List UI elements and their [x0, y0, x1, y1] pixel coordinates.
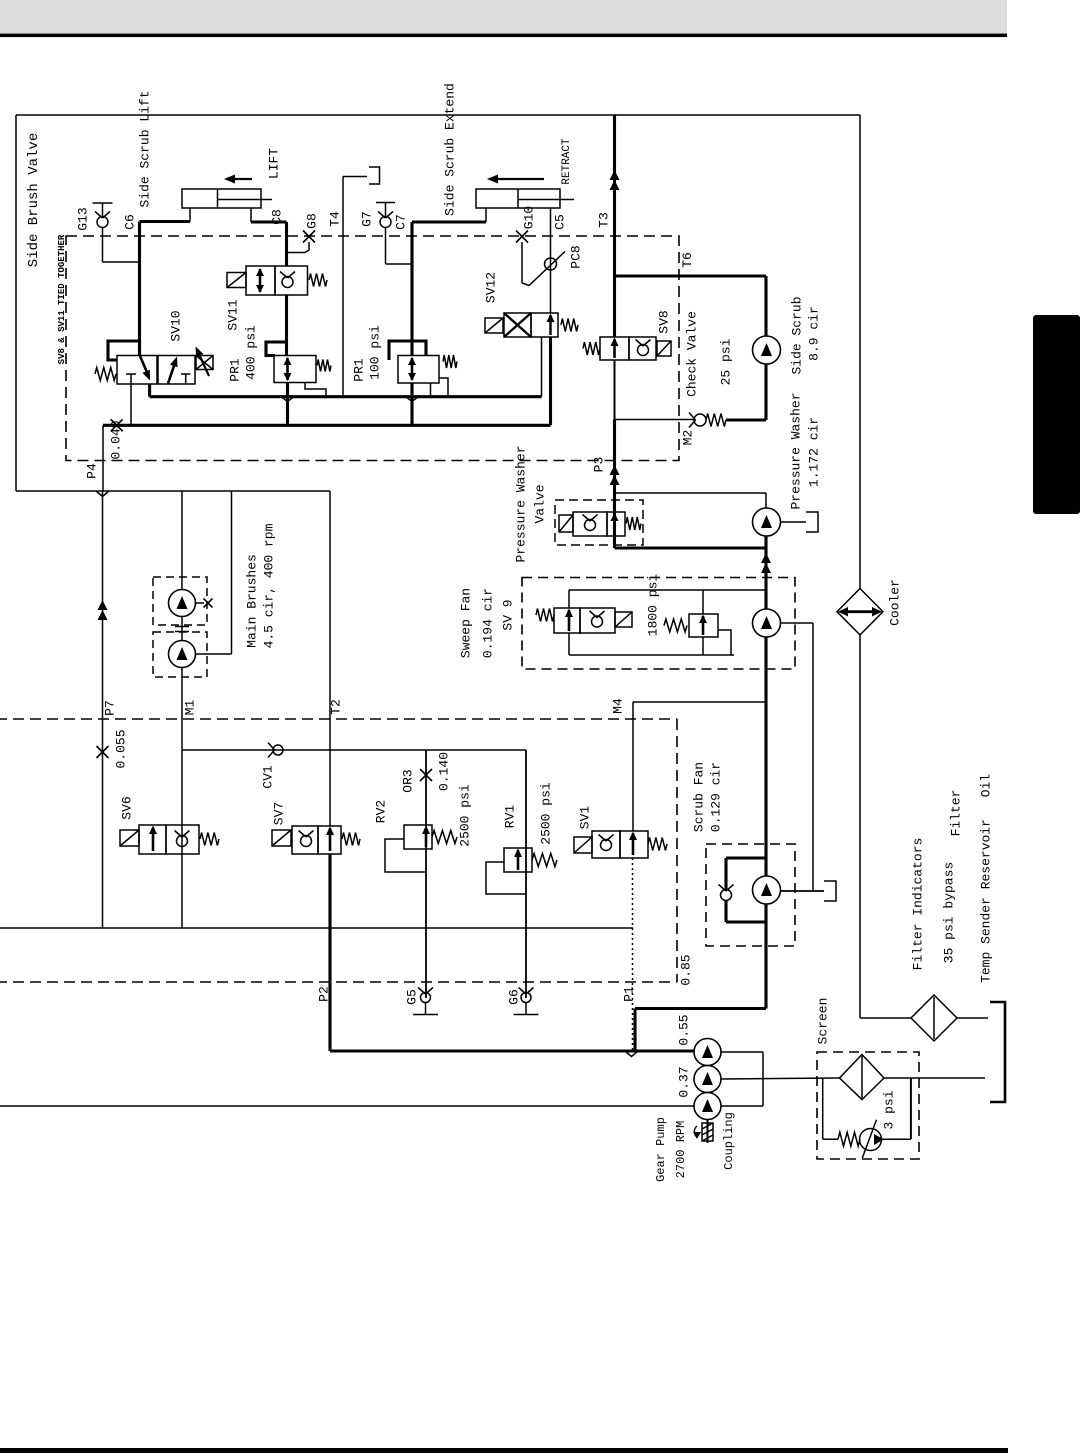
- valve SV10 flow arrow right: [168, 360, 176, 384]
- valve SV11 solenoid: [227, 273, 246, 288]
- motor coupling link: [181, 617, 183, 641]
- svg-text:G6: G6: [507, 989, 522, 1005]
- valve SV12 solenoid: [485, 318, 503, 333]
- relief valve 1800psi feed: [702, 590, 704, 614]
- svg-text:Check Valve: Check Valve: [685, 311, 700, 397]
- wire C7 link: [412, 220, 486, 223]
- arrow retract direction: [494, 178, 544, 180]
- check valve G7 plug bar: [376, 202, 395, 204]
- valve SV1 spring: [648, 838, 667, 851]
- cooler flow double arrow: [841, 610, 879, 613]
- svg-text:Oil: Oil: [979, 774, 994, 798]
- svg-text:T6: T6: [680, 252, 695, 268]
- check valve G13: [97, 217, 108, 228]
- valve SV6 solenoid: [120, 830, 139, 846]
- svg-text:M2: M2: [681, 430, 696, 446]
- wire G10 drop: [521, 242, 523, 283]
- wire M1 feed drop: [181, 491, 183, 590]
- valve SV10 blocked port T right: [181, 373, 191, 375]
- svg-text:0.37: 0.37: [677, 1066, 692, 1097]
- manifold dashed boundary right: [676, 719, 678, 982]
- wire SV12 outlet heavy drop: [549, 337, 552, 425]
- svg-text:T4: T4: [328, 211, 343, 227]
- svg-text:G5: G5: [405, 989, 420, 1005]
- wire heavy main vertical to SV9: [764, 536, 767, 609]
- wire G13 drop: [102, 228, 104, 263]
- valve PR1 400psi spring: [317, 360, 331, 372]
- svg-text:C6: C6: [123, 214, 138, 230]
- wire pump2 output line: [721, 1078, 840, 1079]
- svg-text:CV1: CV1: [261, 765, 276, 789]
- svg-text:SV1: SV1: [578, 806, 593, 830]
- wire SV9 frame left drop: [568, 590, 570, 608]
- svg-text:35 psi bypass: 35 psi bypass: [942, 862, 957, 963]
- pilot check valve PC8: [545, 258, 557, 270]
- wire sweep fan return drop: [812, 623, 814, 891]
- wire C7 heavy drop: [410, 222, 413, 356]
- svg-text:Side Scrub: Side Scrub: [790, 296, 805, 374]
- svg-text:P1: P1: [622, 986, 637, 1002]
- valve SV7 solenoid: [272, 830, 291, 846]
- wire scrub fan return heavy: [764, 904, 767, 1009]
- svg-text:SV 9: SV 9: [501, 599, 516, 630]
- wire scrub fan outlet: [781, 890, 825, 892]
- wire C8 drop to SV11: [285, 222, 288, 266]
- svg-text:G13: G13: [76, 207, 91, 230]
- page side tab: [1033, 315, 1080, 514]
- valve SV11 spring: [309, 274, 327, 287]
- svg-text:C8: C8: [270, 209, 285, 225]
- wire SV9 frame top: [569, 589, 765, 591]
- svg-text:0.129 cir: 0.129 cir: [709, 762, 724, 832]
- valve SV10 spring: [95, 368, 116, 381]
- wire M2 link heavy: [726, 418, 766, 421]
- manifold dashed boundary bottom: [0, 981, 677, 983]
- valve SV10 proportional arrow: [198, 352, 209, 376]
- svg-text:Sweep Fan: Sweep Fan: [459, 588, 474, 658]
- valve PR1 400psi inlet hook: [266, 342, 288, 356]
- wire T2 line upper: [329, 491, 331, 826]
- valve SV12 body box 2: [531, 313, 558, 337]
- wire cooler return line lower: [859, 635, 861, 1018]
- svg-text:Scrub Fan: Scrub Fan: [692, 762, 707, 832]
- wire scrub fan feed heavy: [764, 637, 767, 876]
- motor Scrub Fan: [753, 876, 781, 904]
- svg-text:Filter: Filter: [949, 790, 964, 837]
- motor Main Brush 1 dashed box: [153, 577, 207, 625]
- wire pressure washer motor to tank: [781, 521, 807, 523]
- wire PR1 400psi outlet: [286, 383, 289, 426]
- wire C6 heavy drop: [138, 222, 141, 356]
- wire G13 to C6: [103, 261, 140, 263]
- valve block Side Brush Valve dashed boundary: [66, 236, 679, 461]
- valve SV10 flow arrow left: [140, 356, 149, 377]
- valve SV8 body box 2 with check: [629, 337, 656, 360]
- valve SV12 spring: [561, 319, 578, 332]
- svg-text:Screen: Screen: [816, 998, 831, 1045]
- wire return to filter: [860, 1017, 911, 1019]
- svg-text:T3: T3: [597, 212, 612, 228]
- valve SV8 solenoid: [657, 341, 671, 356]
- valve SV10 blocked port T left: [126, 373, 136, 375]
- bypass check ball: [860, 1129, 882, 1151]
- wire extend cylinder left port: [485, 208, 487, 222]
- wire SV9 valve outlet: [568, 633, 570, 655]
- wire T6 top link heavy: [615, 274, 767, 277]
- wire tank header line: [0, 927, 633, 929]
- valve SV11 body box 1: [246, 266, 275, 295]
- wire cooler return line upper: [859, 115, 861, 589]
- valve PR1 400psi pilot drain: [305, 383, 326, 397]
- valve SV11 double arrow: [259, 269, 262, 292]
- svg-text:G7: G7: [360, 211, 375, 227]
- wire G7 to C7: [386, 263, 413, 265]
- relief valve 1800psi outlet: [702, 637, 704, 655]
- check valve G6: [521, 993, 531, 1003]
- valve SV9 solenoid: [615, 612, 632, 627]
- wire sweep fan motor outlet: [781, 622, 814, 624]
- wire SV10 outlet drop: [148, 384, 151, 397]
- svg-text:PR1: PR1: [352, 358, 367, 382]
- page header bar: [0, 0, 1007, 33]
- orifice OR3 0.140: [420, 769, 432, 781]
- wire G10 to PC8 pilot: [522, 252, 565, 286]
- svg-text:Main Brushes: Main Brushes: [245, 554, 260, 648]
- filter diamond 3psi: [840, 1055, 885, 1100]
- motor block Scrub Fan dashed box: [706, 844, 795, 946]
- relief valve RV2 body: [404, 825, 432, 849]
- wire suction heavy rail: [330, 1049, 694, 1052]
- filter diamond main: [911, 995, 957, 1041]
- valve SV7 spring: [342, 833, 360, 846]
- check valve M2 spring: [706, 414, 726, 427]
- valve SV10 inlet hook: [108, 341, 140, 360]
- coupling symbol: [702, 1123, 713, 1141]
- svg-text:SV8: SV8: [657, 310, 672, 333]
- svg-text:P4: P4: [85, 463, 100, 479]
- scrub fan bypass drop: [724, 858, 727, 889]
- svg-text:Side Scrub Extend: Side Scrub Extend: [443, 83, 458, 216]
- wire outer border top (page left edge): [15, 115, 17, 491]
- relief valve RV2 pilot loop: [385, 839, 426, 872]
- svg-text:G8: G8: [305, 213, 320, 229]
- valve SV1 body box 1 with check: [592, 831, 620, 858]
- svg-text:C5: C5: [553, 214, 568, 230]
- valve SV10 body box 1: [117, 356, 157, 385]
- wire tank rail lower heavy: [103, 424, 551, 427]
- wire RV1 riser: [525, 750, 527, 998]
- svg-text:Side Brush Valve: Side Brush Valve: [26, 133, 42, 267]
- svg-text:2500 psi: 2500 psi: [458, 784, 473, 847]
- relief valve 1800psi pilot: [718, 630, 731, 655]
- wire SV10 tank drop: [130, 384, 132, 425]
- wire cylinder left port: [189, 208, 191, 222]
- svg-text:C7: C7: [394, 214, 409, 230]
- valve block SV9 dashed box: [522, 578, 795, 670]
- check valve G5: [421, 993, 431, 1003]
- main brush 1 drain plug: [195, 602, 205, 604]
- svg-text:OR3: OR3: [401, 769, 416, 792]
- motor Main Brush 2: [169, 641, 196, 668]
- wire SV11 to PR1: [285, 295, 288, 341]
- svg-text:1800 psi: 1800 psi: [646, 574, 661, 637]
- wire G7 drop: [385, 228, 387, 265]
- svg-text:0.85: 0.85: [679, 954, 694, 985]
- wire P1 dotted drop: [632, 858, 634, 1051]
- valve SV12 body box 1 crossed: [504, 313, 531, 337]
- pump manifold links: [721, 1051, 763, 1053]
- svg-text:LIFT: LIFT: [267, 148, 282, 179]
- svg-text:M4: M4: [611, 698, 626, 714]
- arrow lift direction: [231, 178, 252, 180]
- wire outer border (page top edge): [16, 114, 860, 116]
- check valve G7: [380, 217, 391, 228]
- test point G8 orifice: [303, 231, 315, 243]
- valve Pressure Washer dashed box: [555, 500, 643, 545]
- test point G10 orifice: [516, 231, 528, 243]
- wire T4 vertical: [342, 177, 344, 397]
- wire pressure washer top link: [615, 492, 767, 494]
- svg-text:0.140: 0.140: [437, 752, 452, 791]
- tank symbol scrub fan: [824, 881, 836, 901]
- svg-text:8.9 cir: 8.9 cir: [807, 306, 822, 361]
- wire pressure washer valve outlet heavy: [615, 546, 767, 549]
- scrub fan bypass top link: [726, 856, 766, 859]
- arrow P3 flow double arrowheads: [610, 465, 620, 475]
- orifice 0.055: [97, 746, 109, 758]
- page header rule: [0, 34, 1007, 38]
- valve SV10 body box 2: [158, 356, 195, 385]
- node rail junction chevron at PR1-100: [406, 397, 419, 402]
- wire reservoir suction line: [0, 1105, 694, 1107]
- arrow P7 flow double arrowheads: [98, 600, 108, 610]
- motor Side Scrub: [753, 336, 781, 364]
- wire pressure washer motor feed: [765, 493, 767, 508]
- svg-text:4.5 cir, 400 rpm: 4.5 cir, 400 rpm: [262, 523, 277, 648]
- motor Pressure Washer: [753, 508, 781, 536]
- svg-text:1.172 cir: 1.172 cir: [807, 417, 822, 487]
- valve PR1 100psi inlet hook: [389, 341, 426, 360]
- svg-text:RV2: RV2: [374, 800, 389, 823]
- svg-text:100 psi: 100 psi: [368, 325, 383, 380]
- svg-text:0.194 cir: 0.194 cir: [481, 588, 496, 658]
- valve pressure washer body box 1 with check: [573, 512, 607, 536]
- wire P3 heavy: [613, 420, 616, 549]
- check valve M2: [694, 414, 706, 426]
- wire supply rail P4-P7: [16, 490, 330, 492]
- wire T2 line heavy lower: [328, 854, 331, 1051]
- svg-text:Coupling: Coupling: [722, 1112, 736, 1170]
- arrow main flow double arrowheads: [761, 553, 771, 563]
- relief valve RV1 body: [504, 848, 532, 872]
- wire main brush 2 right port: [196, 653, 232, 655]
- pump section 2: [694, 1066, 721, 1093]
- svg-text:0.55: 0.55: [677, 1014, 692, 1045]
- motor Main Brush 2 dashed box: [153, 632, 207, 677]
- wire cylinder right port: [250, 208, 252, 222]
- check valve G13 plug bar: [93, 202, 113, 204]
- wire filter to reservoir: [957, 1017, 988, 1019]
- valve pressure washer solenoid: [559, 515, 573, 532]
- valve SV6 body box 2 with check: [166, 825, 199, 854]
- valve PR1 100psi spring: [443, 355, 457, 368]
- bypass return riser: [910, 1078, 912, 1139]
- svg-text:0.055: 0.055: [114, 729, 129, 768]
- check valve CV1: [273, 745, 283, 755]
- svg-text:2700 RPM: 2700 RPM: [674, 1121, 688, 1179]
- valve SV8 spring: [583, 342, 600, 355]
- reservoir bracket: [990, 1002, 1005, 1102]
- svg-text:RV1: RV1: [503, 805, 518, 829]
- wire P7 line: [102, 491, 104, 928]
- svg-text:SV8 & SV11 TIED TOGETHER: SV8 & SV11 TIED TOGETHER: [57, 234, 67, 364]
- valve PR1 400psi double arrow: [286, 358, 289, 380]
- svg-text:Cooler: Cooler: [888, 579, 903, 626]
- svg-text:Valve: Valve: [533, 484, 548, 523]
- tank symbol T4: [343, 176, 367, 178]
- node suction junction chevron: [625, 1051, 638, 1057]
- wire T3 through SV8 to M2 junction: [614, 360, 616, 420]
- svg-text:Temp Sender Reservoir: Temp Sender Reservoir: [979, 819, 994, 983]
- svg-text:Pressure Washer: Pressure Washer: [789, 392, 804, 509]
- arrow T3 flow double arrowheads: [610, 170, 620, 180]
- svg-text:SV12: SV12: [484, 272, 499, 303]
- wire C8 link: [251, 220, 287, 223]
- tank symbol G6: [525, 1003, 527, 1015]
- svg-text:M1: M1: [183, 700, 198, 716]
- wire T3 heavy supply: [613, 115, 616, 337]
- wire M4 link: [633, 701, 766, 703]
- wire side scrub feed heavy: [764, 276, 767, 336]
- relief valve RV1 pilot loop: [486, 862, 526, 894]
- bypass tap left: [822, 1078, 824, 1139]
- tank symbol G5: [425, 1003, 427, 1015]
- wire main brush return riser: [231, 491, 233, 654]
- wire filter outlet: [884, 1077, 985, 1079]
- valve SV10 pilot box with X: [196, 356, 213, 370]
- svg-text:SV7: SV7: [272, 802, 287, 825]
- wire M2 to T3: [615, 419, 695, 421]
- check valve scrub fan bypass: [721, 890, 732, 901]
- valve pressure washer body box 2: [607, 512, 625, 536]
- pump section 1: [694, 1039, 721, 1066]
- svg-text:3 psi: 3 psi: [882, 1090, 897, 1129]
- wire PR1 100psi outlet: [410, 383, 413, 425]
- valve PR1 400psi body: [274, 356, 316, 383]
- svg-text:SV11: SV11: [226, 299, 241, 330]
- wire M1 line lower: [181, 668, 183, 929]
- wire extend cylinder right port C5: [550, 208, 552, 313]
- valve PR1 100psi body: [398, 356, 439, 384]
- svg-text:Gear Pump: Gear Pump: [654, 1117, 668, 1182]
- bypass spring: [823, 1138, 838, 1140]
- svg-text:SV10: SV10: [169, 310, 184, 341]
- valve SV9 spring: [536, 609, 554, 622]
- wire P4 drop: [102, 425, 104, 491]
- relief valve 1800psi body: [689, 614, 718, 637]
- screen dashed box: [817, 1052, 919, 1159]
- manifold dashed boundary top: [0, 718, 677, 720]
- valve PR1 100psi drain drops: [430, 383, 432, 397]
- cylinder Side Scrub Lift body: [182, 189, 261, 208]
- wire G8 drop: [288, 242, 309, 253]
- svg-text:2500 psi: 2500 psi: [539, 782, 554, 845]
- svg-text:0.040: 0.040: [109, 420, 124, 459]
- svg-text:G10: G10: [522, 206, 537, 229]
- valve SV9 body box 2 with check: [580, 608, 615, 633]
- orifice 0.040: [111, 419, 123, 431]
- page footer rule: [0, 1448, 1008, 1453]
- cooler diamond: [837, 589, 883, 635]
- cylinder Side Scrub Extend body: [476, 189, 560, 208]
- valve SV7 body box 1 with check: [292, 826, 318, 854]
- valve SV6 spring: [200, 833, 219, 846]
- motor Main Brush 1: [169, 590, 196, 617]
- wire SV12 tank connection: [541, 337, 543, 397]
- wire scrub fan return elbow: [635, 1007, 766, 1010]
- svg-text:Filter Indicators: Filter Indicators: [911, 838, 926, 971]
- wire side scrub return heavy: [764, 364, 767, 420]
- pump drive shaft: [707, 1120, 709, 1144]
- node P4 junction chevron: [96, 491, 109, 497]
- valve SV9 body box 1: [554, 608, 580, 633]
- svg-text:SV6: SV6: [120, 796, 135, 819]
- svg-text:Pressure Washer: Pressure Washer: [514, 445, 529, 562]
- wire tank rail upper heavy: [150, 395, 542, 398]
- pump section 3: [694, 1093, 721, 1120]
- scrub fan bypass bottom: [724, 901, 727, 923]
- svg-text:PR1: PR1: [228, 358, 243, 382]
- svg-text:25 psi: 25 psi: [719, 338, 734, 385]
- svg-text:Side Scrub Lift: Side Scrub Lift: [138, 90, 153, 207]
- wire CV1 line: [182, 749, 526, 751]
- wire C6 heavy link: [140, 220, 191, 223]
- valve SV1 solenoid: [574, 837, 592, 853]
- valve SV7 body box 2: [318, 826, 341, 854]
- svg-text:RETRACT: RETRACT: [561, 138, 573, 185]
- relief valve 1800psi spring: [664, 619, 687, 632]
- wire SV1 feed: [632, 702, 634, 831]
- relief valve RV2 spring: [432, 831, 457, 844]
- valve pressure washer spring: [626, 517, 641, 530]
- relief valve RV1 spring: [532, 854, 557, 867]
- svg-text:PC8: PC8: [569, 245, 584, 268]
- wire RV2 riser: [425, 750, 427, 998]
- wire SV9 frame bottom: [569, 654, 734, 656]
- coupling rotation arrow: [694, 1126, 697, 1137]
- valve SV8 body box 1: [600, 337, 629, 360]
- svg-text:400 psi: 400 psi: [244, 325, 259, 380]
- tank symbol pressure washer: [806, 512, 818, 532]
- valve SV1 body box 2: [620, 831, 648, 858]
- svg-text:P7: P7: [103, 700, 118, 716]
- valve SV11 body box 2 with check: [275, 266, 308, 295]
- valve PR1 100psi double arrow: [411, 358, 414, 380]
- valve SV6 body box 1: [139, 825, 166, 854]
- svg-text:P3: P3: [592, 457, 607, 473]
- motor Sweep Fan: [753, 609, 781, 637]
- node rail junction chevron at PR1-400: [281, 397, 294, 402]
